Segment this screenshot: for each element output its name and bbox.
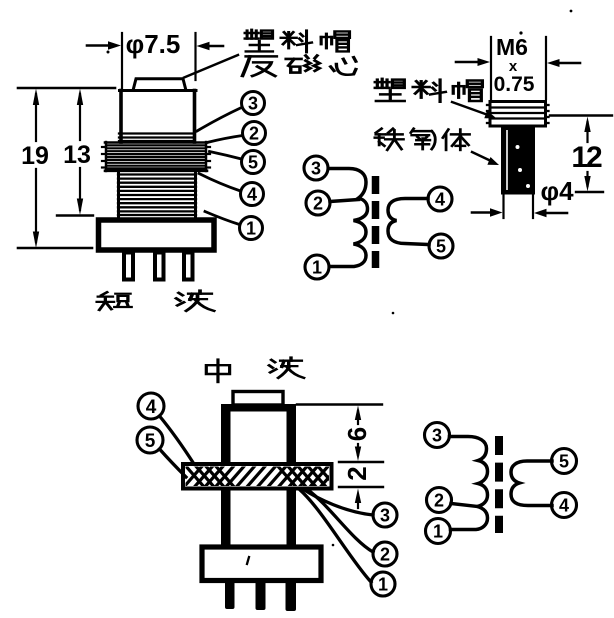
- svg-text:2: 2: [342, 466, 372, 480]
- dimension phi7.5 right arrow: [205, 45, 223, 48]
- secondary winding L2: [388, 199, 429, 245]
- svg-text:12: 12: [571, 141, 602, 174]
- svg-text:1: 1: [378, 575, 388, 595]
- tap wire to terminal 2: [451, 504, 478, 507]
- leader to terminal 1: [299, 489, 371, 582]
- svg-text:5: 5: [248, 153, 258, 173]
- leader arrow from ferrite label: [472, 152, 491, 161]
- leader to terminal 3: [303, 489, 373, 515]
- svg-text:19: 19: [21, 142, 49, 170]
- pin 1: [225, 581, 235, 609]
- pin 3: [286, 581, 297, 611]
- terminal circle 3: [242, 92, 265, 115]
- leader to terminal 4: [199, 174, 241, 192]
- terminal circle 5: [137, 427, 163, 453]
- terminal circle 2: [306, 191, 330, 215]
- svg-text:1: 1: [246, 219, 256, 239]
- pin 2: [256, 581, 266, 610]
- caption: duan (short): [97, 292, 131, 310]
- caption: bo (wave): [176, 291, 214, 311]
- leader to terminal 5: [210, 152, 242, 160]
- svg-text:1: 1: [312, 258, 322, 278]
- tick inside base: [247, 557, 249, 564]
- terminal circle 5: [242, 151, 265, 174]
- primary winding L1: [329, 169, 368, 267]
- label core (fan ci xin) line 2: [243, 56, 277, 76]
- terminal circle 1: [240, 217, 263, 240]
- caption: bo (wave): [269, 358, 304, 378]
- terminal circle 4: [552, 493, 577, 518]
- dimension phi4 right arrow: [544, 212, 567, 215]
- svg-text:13: 13: [63, 141, 91, 169]
- tube wall right upper: [287, 411, 297, 464]
- terminal circle 1: [371, 572, 395, 596]
- svg-text:2: 2: [434, 491, 444, 511]
- leader to terminal 2: [308, 490, 373, 552]
- svg-text:2: 2: [249, 124, 259, 144]
- lower ribbed section: [118, 171, 196, 217]
- dimension phi7.5 left arrow: [87, 44, 112, 47]
- core (dashed): [372, 176, 380, 268]
- svg-text:4: 4: [435, 190, 445, 210]
- svg-text:6: 6: [342, 427, 372, 441]
- tube wall left upper: [221, 411, 231, 464]
- dimension 19/13 top extension line: [18, 87, 115, 90]
- svg-text:3: 3: [311, 159, 321, 179]
- plastic cap of screw core (ribbed): [490, 102, 546, 127]
- bobbin upper body: [119, 91, 123, 143]
- base: [202, 547, 321, 581]
- tap wire to terminal 2: [330, 200, 359, 202]
- terminal circle 2: [427, 488, 452, 513]
- tube wall right lower: [287, 488, 297, 547]
- dimension M6 extension line right: [545, 37, 547, 99]
- pin 3: [184, 253, 193, 280]
- svg-text:4: 4: [247, 185, 257, 205]
- plastic cap of former: [133, 79, 186, 91]
- dimension 13 line with arrows: [79, 94, 81, 140]
- dimension M6 extension line left: [490, 37, 492, 99]
- svg-text:5: 5: [559, 452, 569, 472]
- caption: zhong (middle): [206, 360, 229, 382]
- dimension phi4 left arrow: [472, 211, 493, 214]
- leader to terminal 3: [197, 108, 242, 132]
- terminal circle 1: [426, 519, 451, 544]
- dimension phi7.5 extension line left: [121, 33, 123, 88]
- leader to terminal 4: [160, 416, 195, 464]
- svg-text:5: 5: [436, 237, 446, 257]
- terminal circle 2: [243, 122, 266, 145]
- dimension phi4 extension lines: [502, 195, 504, 218]
- terminal circle 5: [552, 449, 577, 474]
- terminal circle 1: [305, 255, 329, 279]
- dimension 19 line with arrows: [35, 94, 37, 141]
- svg-text:3: 3: [248, 94, 258, 114]
- terminal circle 3: [425, 423, 450, 448]
- terminal circle 4: [428, 187, 452, 211]
- dimension phi7.5 extension line right: [194, 33, 196, 80]
- label plastic-cap (su liao mao) line 1: [245, 30, 273, 52]
- svg-text:3: 3: [380, 506, 390, 526]
- svg-text:0.75: 0.75: [494, 73, 535, 96]
- label ferrite (tie yang ti): [375, 129, 404, 150]
- svg-text:2: 2: [380, 545, 390, 565]
- terminal circle 3: [304, 156, 328, 180]
- secondary winding L2: [511, 461, 552, 506]
- dimension 6 line with arrows: [355, 406, 361, 421]
- dimension 6 top extension line: [297, 403, 382, 405]
- hatched winding flange: [183, 464, 351, 489]
- svg-text:4: 4: [146, 397, 157, 418]
- ferrite body (solid): [501, 126, 535, 195]
- tube wall left lower: [221, 488, 231, 547]
- dimension 13 bottom extension line: [57, 214, 93, 216]
- dimension 12 line with arrows: [586, 122, 588, 142]
- leader from cap label to cap: [184, 55, 238, 78]
- pin 1: [124, 253, 133, 280]
- core (dashed): [495, 436, 503, 533]
- dimension M6 right arrow: [557, 62, 580, 65]
- svg-text:5: 5: [145, 431, 156, 452]
- leader to terminal 1: [205, 212, 240, 225]
- stray dot: [519, 31, 522, 34]
- upper thin ribs: [119, 132, 193, 134]
- primary winding L1: [450, 437, 488, 530]
- dimension 19 bottom extension line: [18, 247, 92, 250]
- pin 2: [155, 253, 164, 280]
- svg-text:4: 4: [559, 496, 569, 516]
- terminal circle 2: [373, 542, 397, 566]
- dimension 2 lower arrow: [355, 489, 361, 504]
- terminal circle 3: [373, 503, 397, 527]
- base of former: [99, 220, 215, 250]
- terminal circle 4: [241, 183, 264, 206]
- leader arrow from cap label: [452, 102, 488, 115]
- tube shoulder bar: [221, 404, 296, 412]
- terminal circle 5: [429, 234, 453, 258]
- wide winding section: [102, 142, 210, 171]
- svg-text:2: 2: [313, 194, 323, 214]
- svg-text:1: 1: [433, 522, 443, 542]
- dimension 12 top extension line: [550, 114, 612, 116]
- leader to terminal 5: [160, 449, 187, 477]
- terminal circle 4: [138, 393, 164, 419]
- svg-text:M6: M6: [496, 34, 528, 60]
- svg-text:φ4: φ4: [540, 176, 574, 206]
- scan noise dots: [107, 51, 110, 54]
- svg-text:3: 3: [432, 426, 442, 446]
- top cap: [233, 392, 283, 406]
- dimension 2 mid extension line: [339, 461, 383, 463]
- dimension 2 bottom extension line: [339, 486, 383, 488]
- dimension M6 left arrow: [456, 61, 480, 64]
- svg-text:φ7.5: φ7.5: [126, 29, 181, 59]
- leader to terminal 2: [207, 136, 243, 143]
- label plastic cap (su liao mao): [375, 79, 404, 101]
- dimension 12 bottom extension line: [576, 191, 603, 193]
